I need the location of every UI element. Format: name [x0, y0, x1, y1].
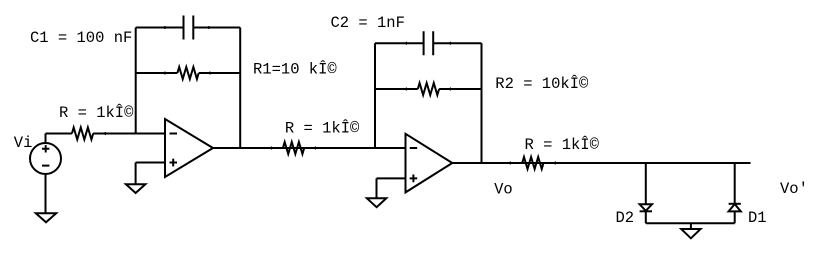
- wire diode D2 cathode: [645, 211, 647, 223]
- wire Vi to resistor R: [46, 133, 72, 135]
- diode D2 cathode bar: [640, 210, 652, 212]
- wire C2 top left: [375, 42, 424, 44]
- svg-text:R = 1kÎ©: R = 1kÎ©: [285, 120, 360, 138]
- pin tick output R left: [509, 162, 511, 165]
- wire op-amp U2 output: [452, 162, 750, 164]
- wire op-amp U1 output to stage 2: [213, 147, 406, 149]
- pin tick R2 left: [405, 88, 407, 91]
- source Vi circle: [30, 143, 61, 174]
- wire C2/R2 network right vertical: [481, 43, 483, 163]
- svg-text:Vo': Vo': [780, 180, 808, 198]
- svg-text:C1 = 100 nF: C1 = 100 nF: [30, 29, 132, 47]
- wire op-amp U1 noninverting input: [136, 162, 165, 164]
- wire C2 top right: [433, 42, 481, 44]
- wire R2 branch right: [439, 88, 481, 90]
- wire op-amp U2 noninverting input: [377, 177, 406, 179]
- ground (diode bus): [681, 229, 700, 238]
- wire diode D2 anode: [645, 163, 647, 204]
- source Vi plus sign: [42, 145, 49, 152]
- resistor R (input stage 1) zigzag: [72, 128, 93, 140]
- wire C1 top right: [193, 27, 240, 29]
- ground (op-amp U1 noninverting input): [126, 184, 145, 193]
- diode D1 triangle (pointing up): [729, 204, 741, 211]
- svg-text:R = 1kÎ©: R = 1kÎ©: [525, 136, 600, 154]
- svg-text:R1=10 kÎ©: R1=10 kÎ©: [253, 61, 337, 79]
- capacitor C1 plates: [184, 16, 194, 40]
- pin tick C2 right: [449, 42, 451, 45]
- pin tick C1 left: [164, 26, 166, 29]
- pin tick R1 left: [164, 72, 166, 75]
- wire Vi top stub: [45, 134, 47, 144]
- wire diode D1 cathode: [734, 163, 736, 204]
- resistor R2 zigzag: [418, 83, 439, 95]
- svg-text:D1: D1: [748, 209, 767, 227]
- resistor R1 zigzag: [177, 67, 198, 79]
- pin tick input resistor right terminal: [104, 132, 106, 135]
- pin tick interstage R left: [271, 147, 273, 150]
- ground (op-amp U2 noninverting input): [367, 198, 386, 207]
- wire ground stem op-amp U2: [376, 178, 378, 198]
- pin tick interstage R right: [315, 147, 317, 150]
- wire R1 branch right: [199, 72, 241, 74]
- svg-text:Vo: Vo: [494, 181, 513, 199]
- wire R2 branch left: [375, 88, 418, 90]
- wire resistor R to op-amp U1 inverting input: [93, 133, 165, 135]
- wire R1 branch left: [136, 72, 178, 74]
- wire C1/R1 network right vertical: [239, 28, 241, 149]
- resistor R (interstage) zigzag: [283, 142, 304, 154]
- op-amp U1 minus sign: [170, 133, 178, 135]
- svg-text:R = 1kÎ©: R = 1kÎ©: [59, 104, 134, 122]
- op-amp U2 minus sign: [410, 147, 418, 149]
- pin tick C2 left: [405, 42, 407, 45]
- source Vi minus sign: [42, 165, 49, 167]
- op-amp U1 triangle: [165, 119, 213, 177]
- diode D1 cathode bar: [729, 203, 741, 205]
- pin tick R2 right: [449, 88, 451, 91]
- wire ground stem diode bus: [690, 223, 692, 229]
- svg-text:Vi: Vi: [14, 134, 33, 152]
- resistor R (output) zigzag: [522, 157, 543, 169]
- pin tick output R right: [554, 162, 556, 165]
- op-amp U2 triangle: [406, 134, 453, 193]
- op-amp U1 plus sign: [170, 159, 178, 167]
- svg-text:D2: D2: [616, 209, 635, 227]
- wire Vi bottom to ground: [45, 174, 47, 213]
- wire diode bottom bus: [646, 222, 735, 224]
- svg-text:C2 = 1nF: C2 = 1nF: [331, 14, 405, 32]
- op-amp U2 plus sign: [410, 175, 418, 183]
- wire C2 network left vertical: [374, 43, 376, 148]
- wire diode D1 anode: [734, 211, 736, 223]
- pin tick C1 right: [208, 26, 210, 29]
- wire C1 top left: [136, 27, 184, 29]
- pin tick R1 right: [209, 72, 211, 75]
- svg-text:R2 = 10kÎ©: R2 = 10kÎ©: [495, 75, 589, 93]
- diode D2 triangle (pointing down): [640, 204, 652, 211]
- ground (below Vi): [36, 213, 56, 222]
- wire C1 network left vertical: [135, 28, 137, 134]
- capacitor C2 plates: [424, 31, 434, 55]
- wire ground stem op-amp U1: [135, 163, 137, 185]
